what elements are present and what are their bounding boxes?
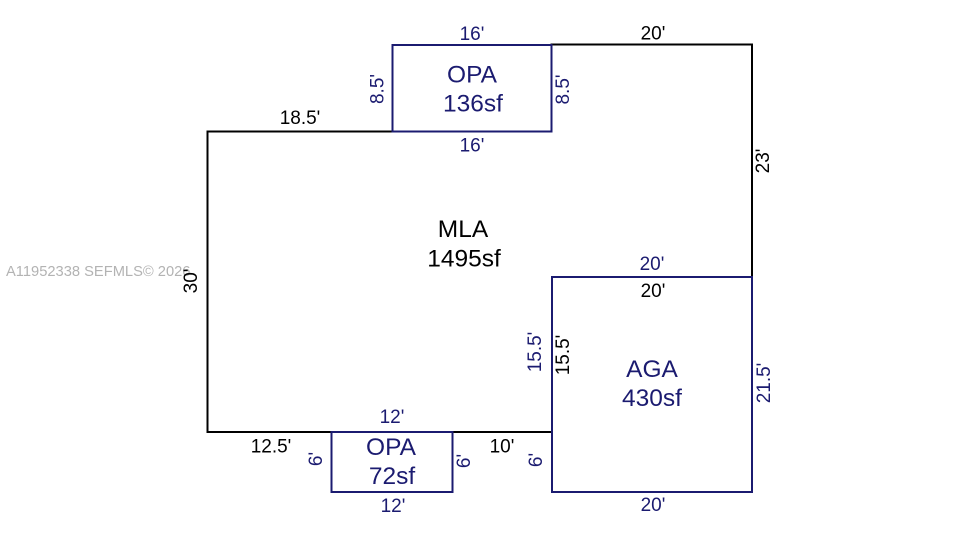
- svg-text:8.5': 8.5': [553, 74, 574, 104]
- svg-text:15.5': 15.5': [553, 335, 574, 376]
- svg-text:16': 16': [460, 24, 485, 45]
- svg-text:430sf: 430sf: [622, 385, 682, 412]
- svg-text:12': 12': [380, 407, 405, 428]
- svg-text:30': 30': [181, 269, 202, 294]
- svg-text:A11952338 SEFMLS© 2026: A11952338 SEFMLS© 2026: [6, 264, 190, 280]
- svg-text:15.5': 15.5': [525, 332, 546, 373]
- svg-text:72sf: 72sf: [369, 463, 416, 490]
- svg-text:OPA: OPA: [366, 434, 417, 461]
- svg-text:136sf: 136sf: [443, 91, 503, 118]
- svg-text:16': 16': [460, 136, 485, 157]
- svg-text:12.5': 12.5': [251, 437, 292, 458]
- svg-text:20': 20': [640, 254, 665, 275]
- svg-text:10': 10': [490, 437, 515, 458]
- AGA 430sf box: [552, 277, 752, 492]
- OPA 72sf box: [332, 432, 453, 492]
- svg-text:6': 6': [306, 452, 327, 466]
- svg-text:23': 23': [753, 149, 774, 174]
- svg-text:18.5': 18.5': [280, 108, 321, 129]
- svg-text:12': 12': [381, 496, 406, 517]
- svg-text:6': 6': [526, 453, 547, 467]
- svg-text:8.5': 8.5': [367, 74, 388, 104]
- svg-text:20': 20': [641, 281, 666, 302]
- svg-text:21.5': 21.5': [754, 363, 775, 404]
- svg-text:OPA: OPA: [447, 62, 498, 89]
- svg-text:AGA: AGA: [626, 356, 678, 383]
- svg-text:1495sf: 1495sf: [427, 246, 501, 273]
- svg-text:20': 20': [641, 24, 666, 45]
- MLA polygon outline: [208, 45, 753, 433]
- svg-text:MLA: MLA: [438, 216, 489, 243]
- svg-text:6': 6': [454, 454, 475, 468]
- OPA 136sf box: [393, 45, 552, 132]
- svg-text:20': 20': [641, 495, 666, 516]
